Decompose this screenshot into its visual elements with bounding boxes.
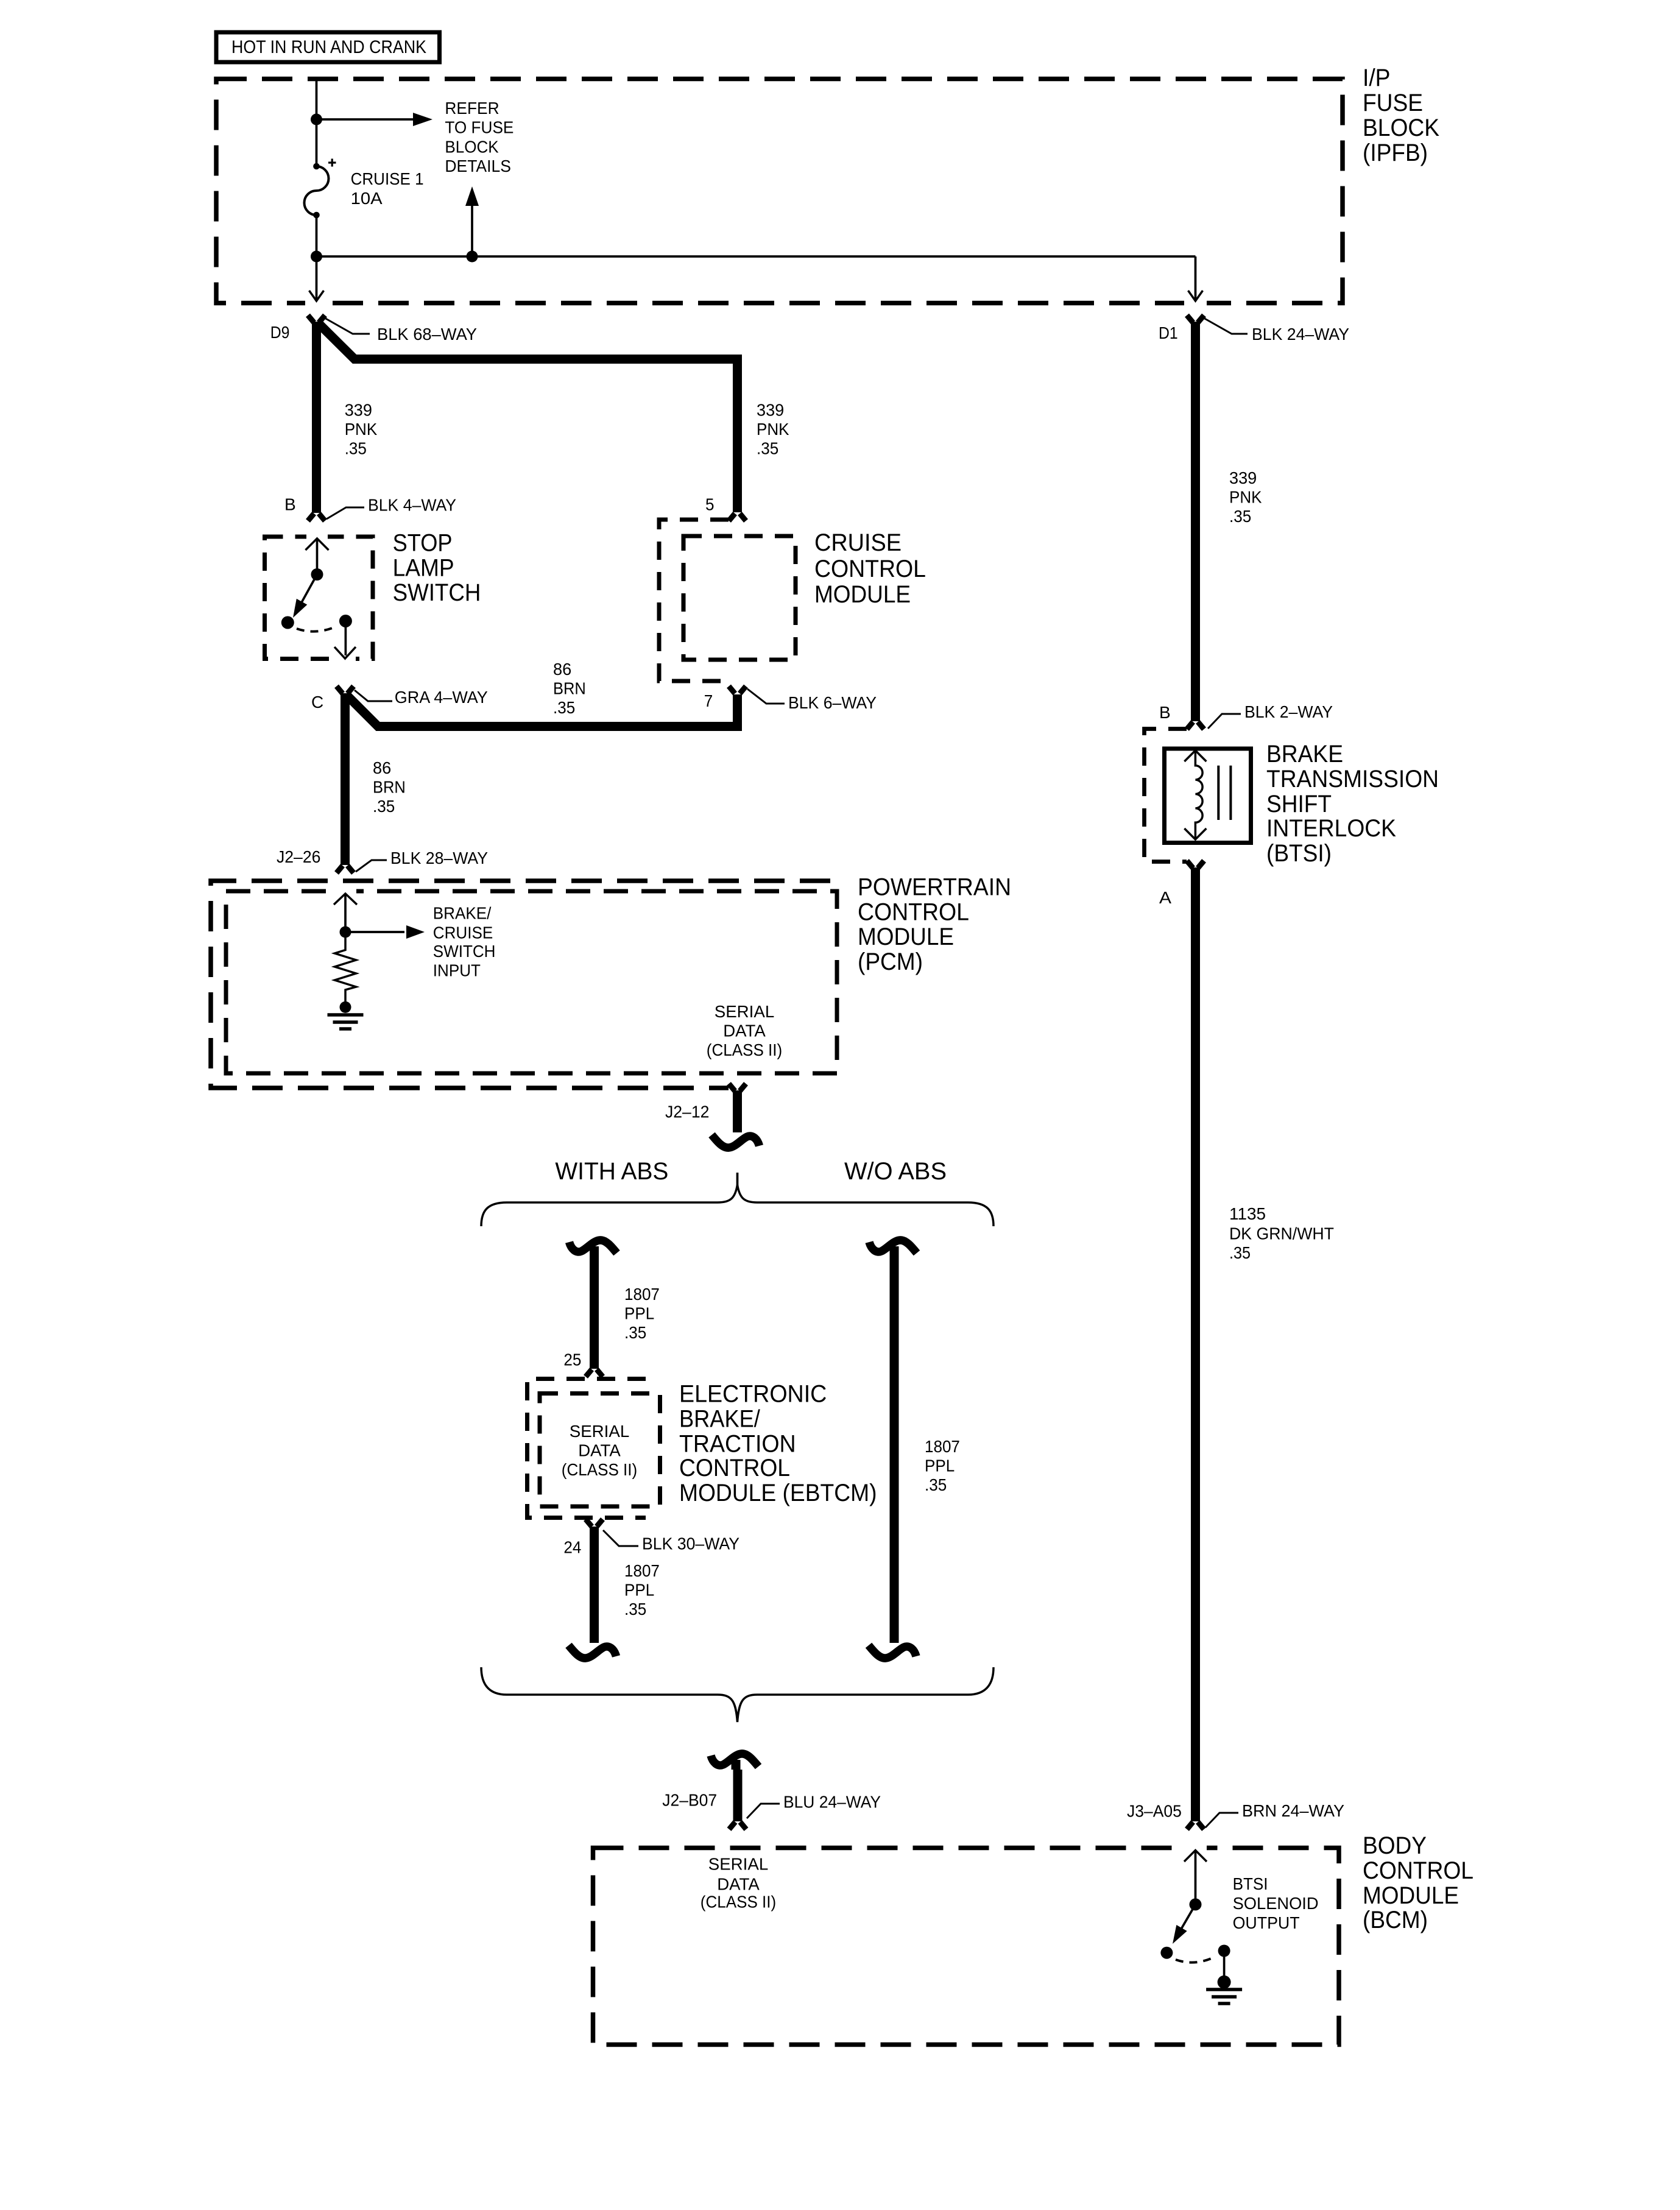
node BCM ground dot xyxy=(1218,1975,1231,1989)
svg-text:BRAKE/: BRAKE/ xyxy=(433,904,492,923)
svg-text:CONTROL: CONTROL xyxy=(858,898,969,925)
svg-text:LAMP: LAMP xyxy=(393,554,454,581)
wire 339 PNK from D9 to B xyxy=(312,322,321,513)
svg-text:REFER: REFER xyxy=(445,99,499,118)
svg-text:CRUISE: CRUISE xyxy=(433,923,493,942)
svg-text:CONTROL: CONTROL xyxy=(814,556,926,582)
label BRAKE/ CRUISE SWITCH INPUT xyxy=(433,904,496,980)
label 339 PNK .35 right xyxy=(1229,468,1262,526)
cruise control module outer dashed frame xyxy=(659,520,729,681)
label 86 BRN .35 upper xyxy=(553,660,586,717)
node bus left junction xyxy=(311,251,322,263)
svg-text:DETAILS: DETAILS xyxy=(445,157,511,175)
svg-text:DATA: DATA xyxy=(578,1441,621,1460)
wire 1135 DK GRN/WHT to BCM xyxy=(1191,867,1200,1821)
solenoid core lines xyxy=(1218,766,1230,820)
BTSI solenoid box xyxy=(1165,749,1251,843)
svg-text:86: 86 xyxy=(373,758,391,777)
svg-text:BLOCK: BLOCK xyxy=(445,138,499,157)
arrowhead brake cruise switch input xyxy=(406,925,425,939)
arrow BTSI output up xyxy=(1184,1851,1207,1862)
label SERIAL DATA (CLASS II) in EBTCM xyxy=(562,1422,637,1479)
switch travel dashed arc xyxy=(297,626,337,632)
svg-text:J2–12: J2–12 xyxy=(665,1102,709,1121)
svg-text:MODULE (EBTCM): MODULE (EBTCM) xyxy=(679,1480,877,1506)
svg-text:FUSE: FUSE xyxy=(1363,90,1423,116)
svg-text:BLOCK: BLOCK xyxy=(1363,115,1439,141)
brace merge bottom xyxy=(481,1667,994,1722)
svg-text:D9: D9 xyxy=(270,323,290,342)
arrowhead to fuse block details xyxy=(413,113,432,126)
svg-text:D1: D1 xyxy=(1159,323,1178,342)
wire 1807 PPL with-ABS lower xyxy=(590,1527,599,1640)
arrow switch input up xyxy=(306,538,329,550)
BTSI dashed frame xyxy=(1145,729,1187,862)
label 339 PNK .35 left xyxy=(345,401,378,458)
svg-text:(BTSI): (BTSI) xyxy=(1266,840,1332,867)
connector A from BTSI xyxy=(1187,861,1204,868)
label POWERTRAIN CONTROL MODULE (PCM) xyxy=(858,874,1011,975)
svg-text:BRN 24–WAY: BRN 24–WAY xyxy=(1242,1801,1344,1820)
svg-text:J2–26: J2–26 xyxy=(277,847,320,866)
svg-text:WITH ABS: WITH ABS xyxy=(555,1158,668,1185)
svg-text:TRACTION: TRACTION xyxy=(679,1431,796,1458)
EBTCM serial data inner dashed box xyxy=(540,1394,660,1507)
wire switch common xyxy=(316,538,319,574)
arrow brake cruise input up xyxy=(334,894,357,905)
svg-text:86: 86 xyxy=(553,660,571,679)
node fuse feed junction xyxy=(311,114,322,125)
svg-text:339: 339 xyxy=(345,401,372,420)
svg-text:SOLENOID: SOLENOID xyxy=(1233,1894,1319,1913)
pigtail with-ABS top xyxy=(570,1240,617,1256)
svg-text:BLU 24–WAY: BLU 24–WAY xyxy=(783,1792,881,1811)
wire 1807 PPL with-ABS upper xyxy=(590,1256,599,1369)
leader BLK 6-WAY xyxy=(747,689,785,704)
leader BLK 68-WAY xyxy=(325,318,370,334)
leader BLK 2-WAY xyxy=(1208,714,1241,729)
svg-text:1807: 1807 xyxy=(624,1285,660,1304)
svg-text:TO FUSE: TO FUSE xyxy=(445,118,514,137)
svg-text:CONTROL: CONTROL xyxy=(1363,1857,1474,1884)
connector 7 BLK 6-WAY xyxy=(729,687,746,694)
svg-text:W/O ABS: W/O ABS xyxy=(844,1158,947,1185)
wire switch arm xyxy=(295,574,317,615)
wire 86 BRN from C to cruise module 7 xyxy=(347,694,738,727)
svg-text:339: 339 xyxy=(757,401,784,420)
wire BCM switch arm xyxy=(1175,1904,1196,1940)
svg-text:SERIAL: SERIAL xyxy=(715,1002,775,1021)
node switch right contact xyxy=(339,615,352,627)
connector B BLK 2-WAY into BTSI xyxy=(1187,722,1204,729)
arrow into D1 xyxy=(1188,291,1203,301)
arrow switch output down xyxy=(334,647,356,658)
connector D9 BLK 68-WAY xyxy=(308,316,325,323)
svg-text:BLK 30–WAY: BLK 30–WAY xyxy=(642,1534,739,1553)
svg-text:BLK 68–WAY: BLK 68–WAY xyxy=(377,325,477,344)
svg-text:J3–A05: J3–A05 xyxy=(1127,1801,1182,1820)
svg-text:BRN: BRN xyxy=(553,679,586,698)
BCM switch travel dashed arc xyxy=(1176,1957,1214,1963)
wire BCM to ground xyxy=(1223,1951,1226,1980)
stop lamp switch dashed box xyxy=(265,537,373,659)
leader BRN 24-WAY xyxy=(1205,1813,1238,1827)
connector B BLK 4-WAY xyxy=(308,514,325,521)
svg-text:A: A xyxy=(1159,888,1171,907)
pigtail J2-B07 top xyxy=(711,1754,758,1770)
svg-text:B: B xyxy=(284,495,296,514)
label ELECTRONIC BRAKE TRACTION CONTROL MODULE EBTCM xyxy=(679,1380,877,1506)
label CRUISE 1 10A xyxy=(351,169,424,208)
wire IPFB bus horizontal xyxy=(317,255,1196,258)
node BCM switch common xyxy=(1190,1898,1202,1910)
svg-text:SERIAL: SERIAL xyxy=(708,1855,769,1874)
svg-text:CRUISE: CRUISE xyxy=(814,529,902,556)
svg-text:(BCM): (BCM) xyxy=(1363,1907,1428,1933)
wire brake cruise input xyxy=(344,894,347,932)
svg-text:BLK 24–WAY: BLK 24–WAY xyxy=(1252,325,1349,344)
EBTCM outer dashed frame xyxy=(528,1379,646,1518)
svg-text:ELECTRONIC: ELECTRONIC xyxy=(679,1380,827,1407)
svg-text:C: C xyxy=(311,693,323,711)
svg-text:BTSI: BTSI xyxy=(1233,1874,1268,1893)
svg-text:.35: .35 xyxy=(624,1600,646,1619)
wire up-arrow stem xyxy=(471,206,473,256)
leader BLK 4-WAY xyxy=(326,507,364,519)
svg-text:(CLASS II): (CLASS II) xyxy=(707,1040,782,1059)
wire serial data to BCM xyxy=(733,1770,743,1821)
svg-text:INTERLOCK: INTERLOCK xyxy=(1266,815,1396,842)
svg-text:1807: 1807 xyxy=(624,1561,660,1580)
node switch common xyxy=(311,568,323,581)
leader BLU 24-WAY xyxy=(747,1804,780,1818)
wire to brake cruise label xyxy=(345,931,404,933)
pigtail with-ABS bottom xyxy=(569,1645,616,1658)
svg-text:GRA 4–WAY: GRA 4–WAY xyxy=(395,688,488,707)
wire switch output xyxy=(345,621,347,656)
svg-text:TRANSMISSION: TRANSMISSION xyxy=(1266,766,1439,793)
svg-text:5: 5 xyxy=(705,495,715,514)
label I/P FUSE BLOCK (IPFB) xyxy=(1363,65,1439,166)
pigtail without-ABS bottom xyxy=(869,1645,916,1658)
svg-text:SWITCH: SWITCH xyxy=(393,579,481,606)
svg-text:7: 7 xyxy=(704,691,713,710)
wire BCM switch common xyxy=(1195,1851,1197,1905)
wire refer-arrow horizontal xyxy=(317,118,414,121)
pigtail J2-12 twisted pair drop xyxy=(712,1135,760,1148)
svg-text:BODY: BODY xyxy=(1363,1832,1427,1859)
node bus mid junction xyxy=(467,251,478,263)
svg-text:DATA: DATA xyxy=(723,1022,766,1040)
svg-text:(IPFB): (IPFB) xyxy=(1363,139,1428,166)
wire brace stem xyxy=(736,1173,739,1186)
leader BLK 30-WAY xyxy=(603,1530,638,1546)
svg-text:CONTROL: CONTROL xyxy=(679,1455,790,1481)
node BCM switch right contact xyxy=(1218,1945,1230,1957)
connector C GRA 4-WAY xyxy=(337,687,354,694)
wire fuse feed vertical xyxy=(316,79,318,120)
label 1807 PPL .35 with-ABS upper xyxy=(624,1285,660,1342)
leader BLK 28-WAY xyxy=(356,860,387,872)
arrow into D9 xyxy=(309,291,324,301)
svg-text:INPUT: INPUT xyxy=(433,961,481,980)
node BCM switch left contact xyxy=(1160,1947,1173,1959)
connector pin 25 into EBTCM xyxy=(586,1369,603,1377)
connector J3-A05 BRN 24-WAY xyxy=(1187,1822,1204,1829)
svg-text:J2–B07: J2–B07 xyxy=(662,1790,717,1809)
label STOP LAMP SWITCH xyxy=(393,530,481,606)
wire serial data J2-12 stub xyxy=(733,1090,742,1130)
svg-text:PPL: PPL xyxy=(624,1581,654,1600)
wire 86 BRN from C to PCM xyxy=(341,693,350,865)
label 86 BRN .35 lower xyxy=(373,758,406,816)
connector J2-B07 BLU 24-WAY xyxy=(729,1822,746,1829)
svg-text:B: B xyxy=(1159,703,1171,722)
label SERIAL DATA (CLASS II) in PCM xyxy=(707,1002,782,1059)
wire above fuse xyxy=(316,119,318,166)
ground PCM internal xyxy=(328,1015,364,1029)
svg-text:BRAKE: BRAKE xyxy=(1266,741,1343,768)
svg-text:.35: .35 xyxy=(373,797,395,816)
svg-text:MODULE: MODULE xyxy=(1363,1882,1459,1909)
arrow solenoid top xyxy=(1184,750,1206,761)
arrowhead BCM switch arm xyxy=(1167,1925,1187,1947)
svg-text:(CLASS II): (CLASS II) xyxy=(701,1892,776,1911)
brace with/without ABS top xyxy=(481,1185,994,1226)
I/P fuse block IPFB dashed box xyxy=(216,79,1343,303)
svg-text:DK GRN/WHT: DK GRN/WHT xyxy=(1229,1224,1334,1243)
arrow solenoid bottom xyxy=(1184,828,1206,839)
svg-text:STOP: STOP xyxy=(393,530,453,557)
svg-text:PPL: PPL xyxy=(925,1456,955,1475)
powertrain control module PCM inner dashed box xyxy=(226,891,837,1073)
svg-text:CRUISE 1: CRUISE 1 xyxy=(351,169,424,188)
label CRUISE CONTROL MODULE xyxy=(814,529,926,608)
svg-text:.35: .35 xyxy=(553,698,575,717)
svg-text:1135: 1135 xyxy=(1229,1204,1266,1223)
svg-text:POWERTRAIN: POWERTRAIN xyxy=(858,874,1011,901)
svg-text:.35: .35 xyxy=(1229,1243,1251,1262)
svg-text:MODULE: MODULE xyxy=(814,581,911,608)
solenoid coil xyxy=(1195,750,1202,839)
svg-text:PPL: PPL xyxy=(624,1304,654,1323)
wire D9 drop xyxy=(316,256,318,300)
cruise control module inner dashed box xyxy=(683,536,796,660)
svg-text:PNK: PNK xyxy=(1229,488,1262,507)
powertrain control module PCM outer dashed frame xyxy=(211,881,830,1088)
svg-text:.35: .35 xyxy=(624,1323,646,1342)
leader GRA 4-WAY xyxy=(355,690,392,701)
leader BLK 24-WAY xyxy=(1204,318,1248,334)
svg-text:SERIAL: SERIAL xyxy=(570,1422,630,1441)
wire 339 PNK D1 to BTSI B xyxy=(1191,322,1200,721)
svg-text:.35: .35 xyxy=(925,1475,947,1494)
label 1807 PPL .35 with-ABS lower xyxy=(624,1561,660,1619)
svg-text:OUTPUT: OUTPUT xyxy=(1233,1913,1300,1932)
svg-text:.35: .35 xyxy=(1229,507,1251,526)
svg-text:10A: 10A xyxy=(351,189,383,208)
label BODY CONTROL MODULE (BCM) xyxy=(1363,1832,1474,1933)
label REFER TO FUSE BLOCK DETAILS xyxy=(445,99,514,175)
resistor pull-up in PCM xyxy=(335,932,356,1005)
svg-text:BLK 4–WAY: BLK 4–WAY xyxy=(368,496,456,515)
svg-text:BRAKE/: BRAKE/ xyxy=(679,1405,761,1432)
node resistor ground dot xyxy=(340,1001,351,1013)
label 1135 DK GRN/WHT .35 xyxy=(1229,1204,1334,1262)
svg-text:(CLASS II): (CLASS II) xyxy=(562,1460,637,1479)
wire below fuse xyxy=(316,215,318,256)
header box HOT IN RUN AND CRANK xyxy=(216,32,440,62)
svg-text:PNK: PNK xyxy=(345,420,378,439)
wire D1 drop xyxy=(1195,256,1197,300)
label SERIAL DATA (CLASS II) in BCM xyxy=(701,1855,776,1912)
connector 5 into cruise module xyxy=(729,514,746,521)
svg-text:BLK 2–WAY: BLK 2–WAY xyxy=(1244,702,1333,721)
svg-text:DATA: DATA xyxy=(717,1875,760,1894)
arrowhead switch arm xyxy=(288,599,307,621)
svg-text:SHIFT: SHIFT xyxy=(1266,791,1332,817)
label 1807 PPL .35 without-ABS xyxy=(925,1437,960,1494)
svg-text:24: 24 xyxy=(563,1537,581,1556)
wire 339 PNK from D9 to cruise module xyxy=(318,323,738,512)
svg-text:339: 339 xyxy=(1229,468,1257,487)
connector J2-12 xyxy=(729,1084,746,1091)
pigtail without-ABS top xyxy=(869,1240,917,1256)
svg-text:.35: .35 xyxy=(345,439,367,458)
node brake cruise junction xyxy=(340,927,351,938)
svg-text:(PCM): (PCM) xyxy=(858,948,923,975)
label BRAKE TRANSMISSION SHIFT INTERLOCK BTSI xyxy=(1266,741,1439,867)
arrowhead pointing up to details xyxy=(465,186,479,206)
svg-text:MODULE: MODULE xyxy=(858,923,954,950)
node switch left contact xyxy=(281,616,294,629)
ground BCM internal xyxy=(1206,1989,1242,2003)
label BTSI SOLENOID OUTPUT xyxy=(1233,1874,1319,1932)
label 339 PNK .35 mid xyxy=(757,401,789,458)
body control module BCM dashed box xyxy=(593,1848,1339,2045)
connector pin 24 from EBTCM xyxy=(586,1519,603,1527)
svg-text:1807: 1807 xyxy=(925,1437,960,1456)
svg-text:SWITCH: SWITCH xyxy=(433,942,496,961)
svg-text:BLK 28–WAY: BLK 28–WAY xyxy=(390,849,488,867)
svg-text:25: 25 xyxy=(563,1350,581,1369)
svg-text:I/P: I/P xyxy=(1363,65,1391,91)
svg-text:HOT IN RUN AND CRANK: HOT IN RUN AND CRANK xyxy=(231,37,426,57)
wire 1807 PPL without-ABS xyxy=(890,1256,899,1640)
connector D1 BLK 24-WAY xyxy=(1187,316,1204,323)
svg-text:PNK: PNK xyxy=(757,420,789,439)
fuse CRUISE 1 10A xyxy=(304,159,336,219)
svg-text:BRN: BRN xyxy=(373,778,406,797)
svg-text:BLK 6–WAY: BLK 6–WAY xyxy=(788,693,877,712)
svg-text:.35: .35 xyxy=(757,439,778,458)
connector J2-26 BLK 28-WAY xyxy=(337,866,354,873)
